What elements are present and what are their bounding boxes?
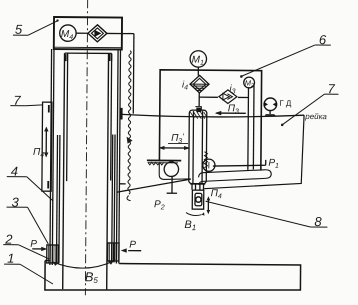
svg-text:рейка: рейка	[304, 112, 327, 121]
svg-text:P: P	[129, 240, 136, 251]
svg-text:3: 3	[12, 195, 20, 210]
svg-text:1: 1	[7, 251, 14, 266]
svg-text:7: 7	[13, 93, 21, 108]
svg-text:Г Д: Г Д	[279, 99, 292, 108]
svg-text:8: 8	[314, 214, 322, 229]
svg-text:P: P	[30, 239, 37, 250]
svg-text:7: 7	[327, 81, 335, 96]
svg-text:4: 4	[11, 164, 18, 179]
svg-text:2: 2	[4, 232, 13, 247]
svg-text:5: 5	[15, 22, 23, 37]
svg-text:6: 6	[319, 32, 327, 47]
